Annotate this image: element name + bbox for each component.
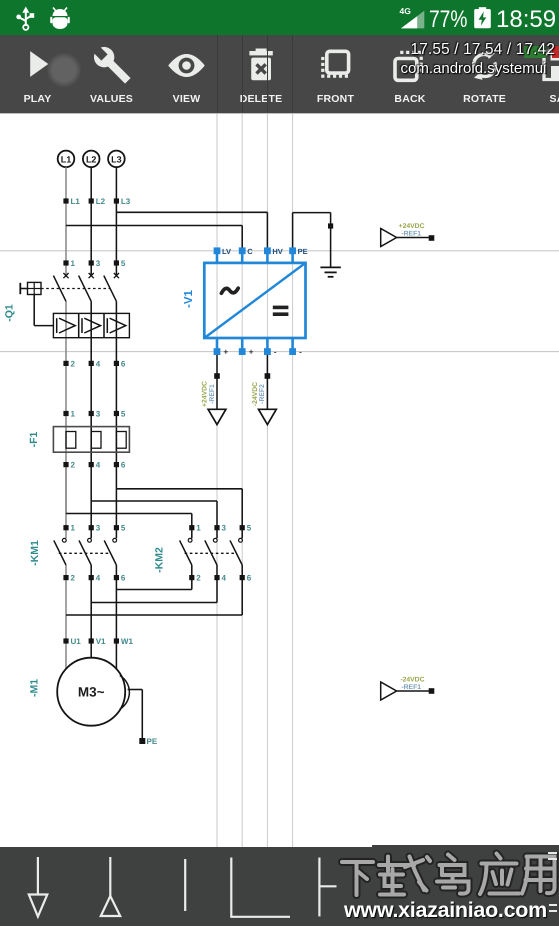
svg-text:PE: PE bbox=[147, 737, 158, 746]
svg-text:1: 1 bbox=[71, 259, 76, 268]
svg-text:5: 5 bbox=[121, 524, 126, 533]
svg-text:LV: LV bbox=[222, 247, 231, 256]
svg-text:L1: L1 bbox=[61, 154, 72, 164]
svg-text:1: 1 bbox=[71, 410, 76, 419]
svg-text:-REF2: -REF2 bbox=[259, 384, 266, 404]
svg-text:-REF1: -REF1 bbox=[401, 684, 421, 691]
svg-text:4: 4 bbox=[96, 461, 101, 470]
svg-text:-REF1: -REF1 bbox=[401, 231, 421, 238]
svg-text:+: + bbox=[249, 348, 254, 357]
svg-text:2: 2 bbox=[71, 461, 76, 470]
svg-text:6: 6 bbox=[121, 359, 126, 368]
svg-text:2: 2 bbox=[71, 359, 76, 368]
svg-text:3: 3 bbox=[96, 259, 101, 268]
svg-text:4: 4 bbox=[96, 574, 101, 583]
svg-text:-KM2: -KM2 bbox=[154, 547, 166, 573]
svg-text:-Q1: -Q1 bbox=[4, 304, 16, 322]
svg-text:M3~: M3~ bbox=[78, 685, 105, 700]
svg-text:+24VDC: +24VDC bbox=[399, 223, 425, 230]
svg-text:1: 1 bbox=[71, 524, 76, 533]
svg-text:5: 5 bbox=[247, 524, 252, 533]
svg-text:6: 6 bbox=[121, 461, 126, 470]
svg-text:-24VDC: -24VDC bbox=[400, 677, 424, 684]
svg-text:+24VDC: +24VDC bbox=[202, 381, 209, 407]
svg-text:6: 6 bbox=[121, 574, 126, 583]
svg-text:3: 3 bbox=[96, 410, 101, 419]
svg-text:V1: V1 bbox=[96, 637, 106, 646]
svg-text:C: C bbox=[247, 247, 253, 256]
svg-text:5: 5 bbox=[121, 410, 126, 419]
svg-text:L2: L2 bbox=[96, 197, 106, 206]
svg-text:+: + bbox=[224, 348, 229, 357]
svg-text:-REF1: -REF1 bbox=[209, 384, 216, 404]
svg-text:1: 1 bbox=[196, 524, 201, 533]
svg-text:4: 4 bbox=[222, 574, 227, 583]
svg-text:2: 2 bbox=[71, 574, 76, 583]
svg-text:-24VDC: -24VDC bbox=[252, 382, 259, 406]
svg-text:PE: PE bbox=[298, 247, 308, 256]
svg-text:4: 4 bbox=[96, 359, 101, 368]
svg-text:3: 3 bbox=[222, 524, 227, 533]
svg-text:U1: U1 bbox=[71, 637, 82, 646]
svg-text:L1: L1 bbox=[71, 197, 81, 206]
svg-text:W1: W1 bbox=[121, 637, 134, 646]
svg-text:6: 6 bbox=[247, 574, 252, 583]
svg-text:3: 3 bbox=[96, 524, 101, 533]
svg-text:HV: HV bbox=[272, 247, 282, 256]
svg-text:-: - bbox=[274, 348, 277, 357]
svg-text:-F1: -F1 bbox=[28, 431, 40, 447]
svg-text:-M1: -M1 bbox=[29, 679, 41, 697]
svg-text:-V1: -V1 bbox=[183, 289, 195, 308]
svg-text:L2: L2 bbox=[86, 154, 97, 164]
svg-text:L3: L3 bbox=[111, 154, 122, 164]
svg-text:5: 5 bbox=[121, 259, 126, 268]
svg-text:2: 2 bbox=[196, 574, 201, 583]
svg-text:-: - bbox=[299, 348, 302, 357]
svg-text:-KM1: -KM1 bbox=[29, 540, 41, 566]
svg-text:4G: 4G bbox=[400, 6, 412, 16]
svg-text:L3: L3 bbox=[121, 197, 131, 206]
